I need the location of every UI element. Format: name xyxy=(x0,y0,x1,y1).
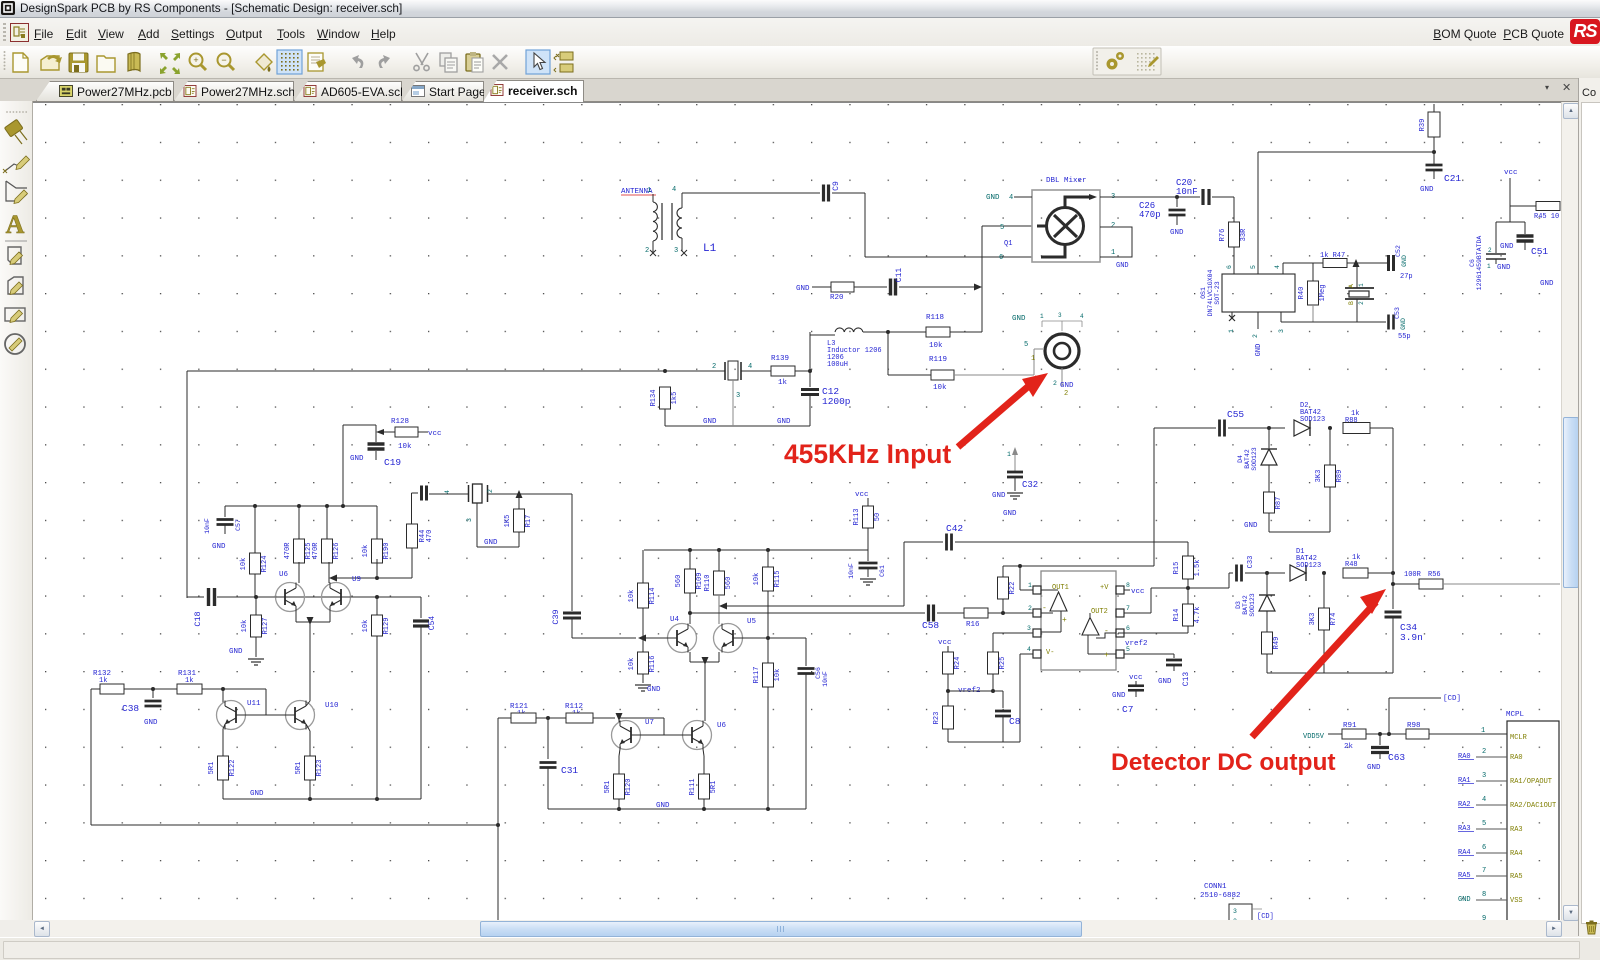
svg-text:-: - xyxy=(1042,604,1047,613)
svg-text:OS1: OS1 xyxy=(1200,287,1207,299)
svg-text:R45 10: R45 10 xyxy=(1534,213,1559,221)
svg-text:GND: GND xyxy=(777,418,791,426)
svg-text:1.5k: 1.5k xyxy=(1194,560,1202,577)
svg-text:C32: C32 xyxy=(1022,480,1038,490)
svg-text:R23: R23 xyxy=(933,712,941,725)
svg-text:10nF: 10nF xyxy=(822,671,829,687)
svg-text:10k: 10k xyxy=(628,590,636,603)
svg-text:R39: R39 xyxy=(1419,119,1427,132)
svg-text:U11: U11 xyxy=(247,700,261,708)
svg-text:5R1: 5R1 xyxy=(710,781,718,794)
svg-text:2: 2 xyxy=(1488,247,1492,254)
svg-text:2: 2 xyxy=(1028,605,1032,612)
svg-text:GND: GND xyxy=(1170,229,1184,237)
svg-text:[CD]: [CD] xyxy=(1443,695,1461,703)
svg-text:4.7k: 4.7k xyxy=(1194,607,1202,624)
svg-text:1k: 1k xyxy=(778,379,788,387)
svg-text:470: 470 xyxy=(426,530,434,543)
svg-text:GND: GND xyxy=(1158,678,1172,686)
svg-text:1Meg: 1Meg xyxy=(1319,285,1327,302)
svg-text:GND: GND xyxy=(144,719,158,727)
svg-text:BAT42: BAT42 xyxy=(1244,449,1251,469)
svg-text:GND: GND xyxy=(1458,896,1471,904)
svg-text:C33: C33 xyxy=(1247,556,1255,569)
svg-text:3: 3 xyxy=(1482,772,1486,780)
svg-text:10nF: 10nF xyxy=(848,563,855,579)
svg-text:GND: GND xyxy=(1060,382,1074,390)
svg-text:5: 5 xyxy=(1482,820,1486,828)
svg-text:U7: U7 xyxy=(645,719,654,727)
svg-text:2: 2 xyxy=(645,247,649,255)
svg-text:DN74LVC1GX04: DN74LVC1GX04 xyxy=(1207,269,1214,316)
svg-text:2: 2 xyxy=(1252,334,1259,338)
svg-text:GND: GND xyxy=(656,802,670,810)
svg-text:GND: GND xyxy=(250,790,264,798)
svg-text:GND: GND xyxy=(1400,318,1407,330)
svg-text:2: 2 xyxy=(487,489,494,493)
svg-text:D3: D3 xyxy=(1235,601,1242,609)
svg-text:3: 3 xyxy=(466,518,473,522)
svg-text:10k: 10k xyxy=(241,620,249,633)
svg-text:GND: GND xyxy=(212,543,226,551)
svg-text:R24: R24 xyxy=(954,657,962,670)
svg-text:3.9n: 3.9n xyxy=(1400,632,1423,643)
svg-text:RA3: RA3 xyxy=(1510,826,1523,834)
svg-text:1k5: 1k5 xyxy=(671,392,679,405)
svg-text:5R1: 5R1 xyxy=(295,762,303,775)
svg-text:2: 2 xyxy=(1111,222,1115,230)
svg-text:D4: D4 xyxy=(1237,455,1244,463)
svg-text:3: 3 xyxy=(1027,625,1031,632)
svg-text:R109: R109 xyxy=(696,573,704,590)
svg-text:100R: 100R xyxy=(1404,571,1422,579)
svg-text:R115: R115 xyxy=(774,571,782,588)
svg-text:GND: GND xyxy=(1012,315,1026,323)
svg-text:2: 2 xyxy=(1482,748,1486,756)
svg-text:3: 3 xyxy=(1278,329,1285,333)
svg-text:10k: 10k xyxy=(628,658,636,671)
svg-text:C9: C9 xyxy=(832,181,841,191)
svg-text:+V: +V xyxy=(1100,584,1109,592)
svg-text:1200p: 1200p xyxy=(822,396,851,407)
svg-text:3K3: 3K3 xyxy=(1309,613,1317,626)
svg-text:4: 4 xyxy=(444,490,451,494)
svg-text:R128: R128 xyxy=(391,418,409,426)
svg-text:Detector DC output: Detector DC output xyxy=(1111,749,1336,776)
svg-text:1: 1 xyxy=(647,187,651,195)
svg-text:6: 6 xyxy=(1226,265,1233,269)
svg-text:R20: R20 xyxy=(830,294,844,302)
svg-text:C13: C13 xyxy=(1182,672,1191,687)
svg-text:1K5: 1K5 xyxy=(504,515,512,528)
svg-text:4: 4 xyxy=(1027,646,1031,653)
svg-text:5R1: 5R1 xyxy=(208,762,216,775)
svg-text:GND: GND xyxy=(1540,280,1554,288)
svg-text:470R: 470R xyxy=(284,542,292,560)
svg-text:10nF: 10nF xyxy=(1176,187,1198,197)
svg-text:C58: C58 xyxy=(922,620,939,631)
svg-text:Q1: Q1 xyxy=(1004,240,1012,248)
svg-text:GND: GND xyxy=(1420,186,1434,194)
svg-text:R129: R129 xyxy=(383,618,391,635)
svg-text:MCPL: MCPL xyxy=(1506,711,1525,719)
svg-text:R56: R56 xyxy=(1428,571,1441,579)
svg-text:C53: C53 xyxy=(1394,307,1401,319)
svg-text:+: + xyxy=(1104,651,1109,660)
svg-text:10nF: 10nF xyxy=(204,518,211,534)
svg-text:R124: R124 xyxy=(261,556,269,573)
svg-text:5R1: 5R1 xyxy=(604,781,612,794)
svg-text:CONN1: CONN1 xyxy=(1204,883,1227,891)
svg-text:10k: 10k xyxy=(929,342,943,350)
svg-text:4: 4 xyxy=(1482,796,1486,804)
svg-text:GND: GND xyxy=(986,194,1000,202)
svg-text:560: 560 xyxy=(725,577,733,590)
svg-text:10k: 10k xyxy=(362,620,370,633)
svg-text:C38: C38 xyxy=(122,703,139,714)
svg-text:C54: C54 xyxy=(428,616,437,631)
svg-text:6: 6 xyxy=(999,254,1003,262)
svg-text:SOD123: SOD123 xyxy=(1300,416,1325,424)
svg-text:C18: C18 xyxy=(193,611,203,626)
svg-text:GND: GND xyxy=(796,285,810,293)
svg-text:GND: GND xyxy=(1244,522,1258,530)
svg-text:GND: GND xyxy=(647,686,661,694)
svg-text:U9: U9 xyxy=(352,576,361,584)
svg-text:GND: GND xyxy=(350,455,364,463)
svg-text:DBL Mixer: DBL Mixer xyxy=(1046,177,1087,185)
svg-text:C19: C19 xyxy=(384,457,401,468)
svg-text:R17: R17 xyxy=(525,515,533,528)
svg-text:1: 1 xyxy=(1228,329,1235,333)
svg-text:R114: R114 xyxy=(649,588,657,605)
svg-text:GND: GND xyxy=(703,418,717,426)
svg-text:C56: C56 xyxy=(815,667,822,679)
svg-text:R76: R76 xyxy=(1219,229,1227,242)
svg-text:3: 3 xyxy=(736,392,740,400)
svg-text:C8: C8 xyxy=(1009,716,1021,727)
svg-text:R126: R126 xyxy=(333,543,341,560)
svg-text:RA0: RA0 xyxy=(1510,754,1523,762)
svg-text:R87: R87 xyxy=(1275,497,1283,510)
svg-text:B: B xyxy=(1348,301,1355,305)
svg-text:VSS: VSS xyxy=(1510,897,1523,905)
svg-text:R22: R22 xyxy=(1009,582,1017,595)
svg-text:U10: U10 xyxy=(325,702,339,710)
svg-text:GND: GND xyxy=(1401,255,1408,267)
svg-text:R134: R134 xyxy=(650,390,658,407)
svg-text:10k: 10k xyxy=(398,443,412,451)
svg-text:R120: R120 xyxy=(625,779,633,796)
svg-text:C57: C57 xyxy=(235,519,242,531)
svg-text:3: 3 xyxy=(1058,312,1062,319)
svg-text:10k: 10k xyxy=(362,545,370,558)
svg-text:3: 3 xyxy=(674,247,678,255)
svg-text:A: A xyxy=(6,210,25,239)
svg-text:455KHz Input: 455KHz Input xyxy=(784,439,951,469)
svg-text:R118: R118 xyxy=(926,314,944,322)
svg-text:470R: 470R xyxy=(312,542,320,560)
svg-text:33R: 33R xyxy=(1240,228,1248,241)
svg-text:3: 3 xyxy=(1233,908,1237,915)
svg-text:vref2: vref2 xyxy=(1125,640,1148,648)
svg-text:GND: GND xyxy=(1116,262,1129,270)
svg-text:+: + xyxy=(1062,616,1067,625)
svg-text:U4: U4 xyxy=(670,616,680,624)
svg-text:R113: R113 xyxy=(853,509,861,526)
svg-text:10k: 10k xyxy=(753,573,761,586)
svg-text:1: 1 xyxy=(1031,355,1035,363)
svg-text:2: 2 xyxy=(712,363,716,371)
svg-text:R139: R139 xyxy=(771,355,789,363)
svg-text:R14: R14 xyxy=(1173,609,1181,622)
svg-text:C21: C21 xyxy=(1444,173,1461,184)
svg-text:R116: R116 xyxy=(649,656,657,673)
svg-text:7: 7 xyxy=(1126,605,1130,612)
svg-text:GND: GND xyxy=(1003,510,1017,518)
svg-text:R190: R190 xyxy=(383,543,391,560)
svg-text:OUT2: OUT2 xyxy=(1091,608,1108,616)
svg-text:R16: R16 xyxy=(966,621,980,629)
svg-text:MCLR: MCLR xyxy=(1510,734,1528,742)
svg-text:R122: R122 xyxy=(229,760,237,777)
svg-text:2: 2 xyxy=(1064,390,1068,398)
svg-text:R110: R110 xyxy=(704,575,712,592)
svg-text:7: 7 xyxy=(1482,867,1486,875)
svg-text:1: 1 xyxy=(1487,263,1491,270)
svg-text:C39: C39 xyxy=(551,609,561,624)
svg-text:5: 5 xyxy=(1250,265,1257,269)
svg-text:1: 1 xyxy=(1028,582,1032,589)
svg-text:4: 4 xyxy=(748,363,752,371)
svg-text:+: + xyxy=(193,55,198,65)
svg-text:C7: C7 xyxy=(1122,704,1133,715)
svg-text:GND: GND xyxy=(1255,344,1263,357)
svg-text:RA5: RA5 xyxy=(1510,873,1523,881)
svg-text:R49: R49 xyxy=(1273,637,1281,650)
svg-text:vcc: vcc xyxy=(938,639,952,647)
svg-text:C31: C31 xyxy=(561,765,578,776)
svg-text:vcc: vcc xyxy=(428,430,442,438)
svg-text:470p: 470p xyxy=(1139,210,1161,220)
svg-text:10k: 10k xyxy=(774,669,782,682)
svg-text:C42: C42 xyxy=(946,523,963,534)
svg-text:4: 4 xyxy=(1080,313,1084,320)
svg-text:-: - xyxy=(1104,627,1109,636)
svg-text:R119: R119 xyxy=(929,356,947,364)
svg-text:55p: 55p xyxy=(1398,333,1411,341)
svg-text:−: − xyxy=(221,55,226,65)
svg-text:6: 6 xyxy=(1482,844,1486,852)
svg-text:RA2/DAC1OUT: RA2/DAC1OUT xyxy=(1510,802,1556,810)
svg-text:V-: V- xyxy=(1046,649,1054,657)
svg-text:R40: R40 xyxy=(1298,287,1306,300)
svg-text:4: 4 xyxy=(1274,265,1281,269)
svg-text:GND: GND xyxy=(1112,692,1126,700)
svg-text:8: 8 xyxy=(1482,891,1486,899)
svg-text:vcc: vcc xyxy=(1129,674,1143,682)
svg-text:1: 1 xyxy=(1040,313,1044,320)
svg-text:4: 4 xyxy=(1009,194,1013,202)
svg-text:C6: C6 xyxy=(1469,259,1476,267)
svg-text:C11: C11 xyxy=(895,268,904,283)
svg-text:R127: R127 xyxy=(262,618,270,635)
svg-text:2: 2 xyxy=(1053,380,1057,387)
svg-text:U6: U6 xyxy=(279,571,289,579)
svg-text:6: 6 xyxy=(1126,625,1130,632)
svg-text:GND: GND xyxy=(1367,764,1381,772)
svg-text:1: 1 xyxy=(1111,249,1115,257)
svg-text:2510-6882: 2510-6882 xyxy=(1200,892,1241,900)
svg-text:GND: GND xyxy=(1500,243,1514,251)
svg-text:2: 2 xyxy=(1358,301,1365,305)
svg-text:2k: 2k xyxy=(1344,743,1354,751)
svg-text:4: 4 xyxy=(672,186,676,194)
svg-text:5: 5 xyxy=(1000,224,1004,232)
svg-text:1: 1 xyxy=(1358,283,1365,287)
svg-text:RA1/OPAOUT: RA1/OPAOUT xyxy=(1510,778,1552,786)
svg-text:L1: L1 xyxy=(703,243,717,255)
svg-text:R111: R111 xyxy=(689,779,697,796)
svg-text:U6: U6 xyxy=(717,722,727,730)
svg-text:RA4: RA4 xyxy=(1510,850,1523,858)
svg-text:SOD123: SOD123 xyxy=(1249,593,1256,617)
svg-text:8: 8 xyxy=(1126,582,1130,589)
svg-text:OUT1: OUT1 xyxy=(1052,584,1069,592)
svg-text:10k: 10k xyxy=(240,558,248,571)
svg-text:C61: C61 xyxy=(879,565,886,577)
svg-text:R15: R15 xyxy=(1173,562,1181,575)
svg-text:C52: C52 xyxy=(1395,245,1402,257)
svg-text:GND: GND xyxy=(992,492,1006,500)
svg-text:A: A xyxy=(1348,284,1355,288)
svg-text:R74: R74 xyxy=(1330,613,1338,626)
svg-text:R89: R89 xyxy=(1336,470,1344,483)
svg-text:3K3: 3K3 xyxy=(1315,470,1323,483)
svg-text:C63: C63 xyxy=(1388,752,1405,763)
svg-text:vcc: vcc xyxy=(855,491,869,499)
svg-text:VDD5V: VDD5V xyxy=(1303,733,1325,741)
svg-text:100uH: 100uH xyxy=(827,361,848,369)
svg-text:GND: GND xyxy=(1497,264,1511,272)
svg-text:560: 560 xyxy=(675,575,683,588)
svg-text:1: 1 xyxy=(1481,727,1485,735)
svg-text:vcc: vcc xyxy=(1504,169,1518,177)
svg-text:GND: GND xyxy=(229,648,243,656)
svg-text:1: 1 xyxy=(1007,451,1011,458)
svg-text:10k: 10k xyxy=(933,384,947,392)
svg-text:SOD123: SOD123 xyxy=(1296,562,1321,570)
svg-text:R123: R123 xyxy=(316,760,324,777)
svg-text:SOT-23: SOT-23 xyxy=(1214,281,1221,305)
svg-text:12961459BTATDA: 12961459BTATDA xyxy=(1476,236,1483,291)
svg-text:BAT42: BAT42 xyxy=(1242,595,1249,615)
svg-text:5: 5 xyxy=(1024,341,1028,349)
svg-text:GND: GND xyxy=(484,539,498,547)
svg-text:SOD123: SOD123 xyxy=(1251,447,1258,471)
svg-text:27p: 27p xyxy=(1400,273,1413,281)
svg-text:R117: R117 xyxy=(753,667,761,684)
svg-text:C51: C51 xyxy=(1531,246,1548,257)
svg-text:C55: C55 xyxy=(1227,409,1244,420)
svg-text:U5: U5 xyxy=(747,618,757,626)
svg-text:50: 50 xyxy=(874,513,882,521)
svg-text:R25: R25 xyxy=(999,657,1007,670)
svg-text:vcc: vcc xyxy=(1131,588,1145,596)
